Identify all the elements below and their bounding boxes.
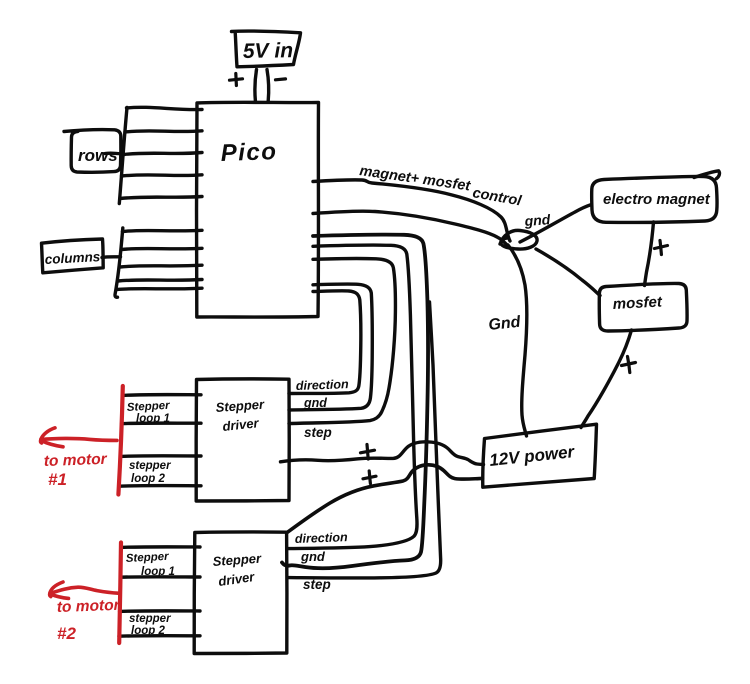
- svg-text:step: step: [303, 577, 331, 592]
- svg-text:columns: columns: [44, 249, 101, 267]
- svg-text:direction: direction: [296, 377, 350, 393]
- svg-text:electro magnet: electro magnet: [603, 191, 711, 208]
- svg-text:stepper: stepper: [129, 460, 171, 472]
- svg-text:gnd: gnd: [300, 549, 326, 564]
- svg-text:#2: #2: [57, 624, 76, 643]
- svg-text:Stepper: Stepper: [126, 551, 170, 565]
- svg-text:to motor: to motor: [57, 597, 121, 616]
- svg-text:direction: direction: [295, 530, 349, 546]
- svg-text:Gnd: Gnd: [488, 314, 523, 334]
- svg-text:loop 1: loop 1: [141, 566, 175, 578]
- svg-text:gnd: gnd: [303, 396, 327, 410]
- svg-text:loop 1: loop 1: [136, 413, 170, 425]
- svg-text:Stepper: Stepper: [127, 400, 171, 414]
- svg-text:mosfet: mosfet: [612, 293, 663, 313]
- svg-text:to motor: to motor: [44, 451, 108, 470]
- svg-text:Pico: Pico: [220, 138, 278, 167]
- svg-text:loop 2: loop 2: [131, 625, 165, 637]
- svg-text:loop 2: loop 2: [131, 473, 165, 485]
- svg-text:gnd: gnd: [523, 211, 551, 229]
- svg-text:stepper: stepper: [129, 613, 171, 625]
- svg-text:#1: #1: [48, 470, 67, 489]
- svg-text:step: step: [304, 425, 332, 440]
- svg-text:5V in: 5V in: [243, 39, 294, 63]
- svg-text:rows: rows: [78, 146, 118, 165]
